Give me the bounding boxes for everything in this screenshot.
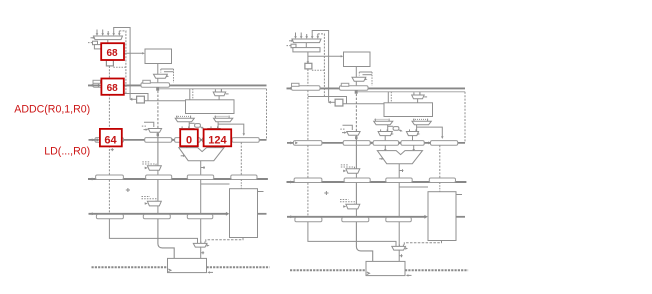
right datapath copy bbox=[287, 31, 469, 277]
svg-text:LD(...,R0): LD(...,R0) bbox=[44, 145, 90, 157]
svg-text:124: 124 bbox=[208, 134, 227, 146]
node clock tick under 64 bbox=[111, 148, 114, 151]
svg-text:ADDC(R0,1,R0): ADDC(R0,1,R0) bbox=[14, 103, 90, 115]
wire stub into highlight row2 bbox=[93, 138, 100, 141]
left datapath copy bbox=[88, 28, 270, 274]
highlight box B=124 bbox=[204, 129, 232, 146]
svg-text:68: 68 bbox=[107, 83, 119, 94]
svg-text:68: 68 bbox=[106, 48, 118, 59]
svg-text:64: 64 bbox=[104, 134, 117, 146]
svg-text:0: 0 bbox=[186, 134, 192, 146]
highlight box A=0 bbox=[180, 129, 198, 146]
highlight box PC=68 bbox=[101, 43, 124, 60]
highlight box PC=64 bbox=[100, 129, 122, 147]
wire stub into highlight row1 bbox=[93, 84, 102, 88]
highlight box IF PC=68 bbox=[101, 79, 123, 95]
